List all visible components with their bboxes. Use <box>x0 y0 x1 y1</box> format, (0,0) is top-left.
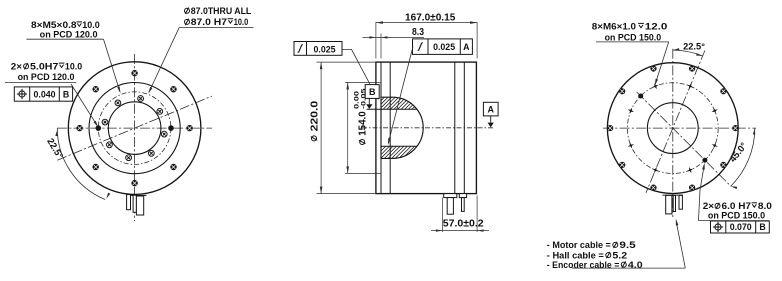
167 arrow left <box>376 21 383 24</box>
svg-text:on PCD 120.0: on PCD 120.0 <box>18 72 75 82</box>
8xM6 underline <box>596 41 669 43</box>
svg-text:on PCD 150.0: on PCD 150.0 <box>605 32 662 42</box>
2xdia5 note underline <box>5 81 76 83</box>
left view rim hole 8 <box>93 86 99 92</box>
svg-text:0.070: 0.070 <box>730 222 752 232</box>
left view cable collar line <box>131 194 147 196</box>
left view M5 tapped hole 1 <box>138 96 144 102</box>
dia87 leader <box>149 28 179 92</box>
8.3 ext line <box>380 34 382 59</box>
57 arrow right <box>477 229 484 231</box>
parallelism frame 0.025 (left) <box>294 42 342 56</box>
right view rim hole 1 <box>689 66 695 72</box>
parallelism leader right <box>388 47 413 144</box>
154 ext bottom <box>345 172 381 174</box>
svg-text:B: B <box>759 222 765 232</box>
2xdia6 leader <box>699 165 705 221</box>
left view encoder cable stub <box>127 195 131 210</box>
svg-text:87.0 H7: 87.0 H7 <box>191 17 227 27</box>
middle view body outline <box>376 62 477 194</box>
svg-text:154.0: 154.0 <box>358 111 369 136</box>
left view 22.5deg dimension arc <box>57 128 105 199</box>
left 22.5 arc arrow bottom <box>106 193 110 199</box>
svg-text:on PCD 120.0: on PCD 120.0 <box>40 29 98 39</box>
167 ext line right <box>476 22 478 59</box>
left view motor cable stub <box>136 196 143 215</box>
57 dim line <box>431 230 489 232</box>
left view M5 tapped hole 3 <box>161 131 167 137</box>
right view M6 hole mark 3 <box>712 142 718 148</box>
left view rim hole 4 <box>170 164 176 170</box>
right view M6 hole mark 8 <box>652 83 658 89</box>
left view note dia87.0 THRU ALL <box>185 8 190 14</box>
right view M6 hole mark 6 <box>628 142 634 148</box>
left view outer circle OD220 <box>68 62 201 195</box>
svg-text:0.025: 0.025 <box>433 42 455 52</box>
left view M5 tapped hole 7 <box>102 119 108 125</box>
middle view bore chord bottom line <box>381 145 417 147</box>
right view dowel hole SE <box>703 158 707 162</box>
parallelism leader left <box>342 49 378 99</box>
220 arrow top <box>320 62 323 69</box>
svg-text:A: A <box>487 104 494 114</box>
right view M6 hole mark 1 <box>687 83 693 89</box>
middle view horizontal centerline <box>362 127 495 129</box>
right view rim hole 4 <box>720 162 726 168</box>
svg-text:9.5: 9.5 <box>619 240 635 250</box>
154 dim line <box>347 82 349 173</box>
svg-text:5.0H7: 5.0H7 <box>30 61 58 71</box>
8.3 arrow left <box>369 36 376 38</box>
167 ext line left <box>375 22 377 59</box>
middle view hall cable stub <box>462 198 465 212</box>
left view note dia87.0 H7 depth 10 <box>185 19 190 25</box>
right view 45deg dimension <box>731 128 755 186</box>
right view cable collar line <box>663 194 684 196</box>
dia87 leader arrow <box>148 87 152 94</box>
right view rim hole 8 <box>607 125 613 131</box>
220 arrow bottom <box>320 187 323 194</box>
2xdia5 leader arrow <box>94 121 99 128</box>
right view M6 hole mark 2 <box>712 108 718 114</box>
middle view hall cable collar <box>459 194 466 198</box>
dia220 label <box>309 100 320 141</box>
2xdia6 underline <box>699 220 770 222</box>
220 ext bottom <box>317 193 376 195</box>
svg-text:10.0: 10.0 <box>65 61 82 71</box>
svg-text:22.5°: 22.5° <box>683 42 705 52</box>
svg-text:87.0THRU ALL: 87.0THRU ALL <box>191 6 252 16</box>
220 dim line <box>320 62 322 194</box>
right view outer circle <box>607 63 738 194</box>
left view boss circle dia154 <box>89 83 180 174</box>
57 ext left <box>441 198 443 233</box>
right view encoder cable stub <box>679 195 682 209</box>
middle view flange face line <box>380 62 382 194</box>
left view M5 tapped hole 4 <box>148 150 154 156</box>
svg-text:2×: 2× <box>11 61 22 71</box>
left view bore circle dia87 <box>108 102 161 155</box>
cable note underline <box>572 267 685 269</box>
middle view motor cable stub <box>447 198 453 215</box>
svg-text:B: B <box>369 87 376 97</box>
154 arrow top <box>346 82 349 89</box>
left view rim hole 3 <box>186 125 192 131</box>
right view dowel hole NW <box>639 94 643 98</box>
left view rim hole 2 <box>170 86 176 92</box>
left view M5 tapped hole 8 <box>115 100 121 106</box>
left view 22.5-deg diagonal centerline <box>57 96 212 160</box>
right view vertical centerline <box>672 49 674 217</box>
svg-text:5.2: 5.2 <box>612 250 627 260</box>
svg-text:8×M6×1.0: 8×M6×1.0 <box>592 22 636 32</box>
right view rim hole 7 <box>619 162 625 168</box>
right view M6 hole mark 5 <box>652 167 658 173</box>
datum B symbol <box>366 104 372 109</box>
right view rim hole 10 <box>650 66 656 72</box>
left view dowel hole right of 2x dia5 pair <box>169 126 174 131</box>
right view position tolerance frame 0.070 B <box>711 221 770 233</box>
right view rim hole 9 <box>619 88 625 94</box>
svg-text:12.0: 12.0 <box>645 22 668 32</box>
left view M5 tapped hole 5 <box>126 155 132 161</box>
left 22.5 arc arrow top <box>55 130 57 137</box>
57 arrow left <box>436 229 443 231</box>
left view PCD120 bolt circle <box>98 92 171 165</box>
8xM6 leader <box>655 42 669 84</box>
154 arrow bottom <box>346 166 349 173</box>
datum A symbol <box>488 123 494 128</box>
right view rim hole 2 <box>720 88 726 94</box>
8xM5 leader <box>104 39 120 91</box>
svg-text:on PCD 150.0: on PCD 150.0 <box>708 210 765 220</box>
cable note leader <box>676 223 685 269</box>
167 arrow right <box>470 21 477 24</box>
57 ext right <box>476 196 478 233</box>
right view hall cable stub <box>673 195 675 211</box>
right view 45deg dowel axis line <box>637 92 731 186</box>
left view rim hole 7 <box>76 125 82 131</box>
svg-text:A: A <box>463 42 470 52</box>
left view rim hole 6 <box>93 164 99 170</box>
parallelism frame 0.025 A (right) <box>413 39 473 55</box>
svg-text:0.00: 0.00 <box>354 90 361 109</box>
left view M5 tapped hole 6 <box>107 142 113 148</box>
left view rim hole 1 <box>131 70 137 76</box>
left view horizontal centerline <box>57 127 212 129</box>
right view 22.5deg dimension <box>673 50 703 56</box>
8.3 dim line <box>363 36 425 38</box>
middle view rear line 1 <box>454 62 456 194</box>
220 ext top <box>317 61 376 63</box>
middle view hatch bands <box>284 88 614 162</box>
middle view stator section outline <box>381 97 423 158</box>
8.3 arrow right <box>381 36 388 38</box>
middle view motor cable collar <box>444 194 457 198</box>
8xM5 note underline <box>27 38 104 40</box>
svg-text:10.0: 10.0 <box>234 17 248 27</box>
right view PCD150 bolt circle <box>627 83 718 174</box>
left view position tolerance frame 0.040 B <box>14 87 72 101</box>
middle view flange inner line <box>389 62 391 194</box>
left view hall cable stub <box>133 195 136 212</box>
154 ext top <box>345 81 381 83</box>
167 dim line <box>376 22 477 24</box>
right view horizontal centerline <box>603 127 756 129</box>
middle view rear line 2 <box>463 62 465 194</box>
right view rim hole 3 <box>732 125 738 131</box>
svg-text:220.0: 220.0 <box>309 100 320 131</box>
dia87 note underline <box>179 27 253 29</box>
right view motor cable stub <box>666 195 672 214</box>
right view M6 hole mark 7 <box>628 108 634 114</box>
svg-text:B: B <box>63 89 69 99</box>
left view rim hole 5 <box>131 180 137 186</box>
middle view bore chord top line <box>367 108 417 110</box>
svg-text:57.0±0.2: 57.0±0.2 <box>443 218 484 229</box>
svg-text:167.0±0.15: 167.0±0.15 <box>405 13 456 24</box>
left view dowel hole left of 2x dia5 pair <box>96 126 101 131</box>
right view rim hole 5 <box>689 185 695 191</box>
svg-text:0.040: 0.040 <box>33 89 55 99</box>
right view M6 hole mark 4 <box>687 167 693 173</box>
right view 22.5deg axis line <box>646 51 705 193</box>
svg-text:0.025: 0.025 <box>313 45 335 55</box>
svg-text:- Hall cable =: - Hall cable = <box>547 250 604 260</box>
svg-text:- Motor cable =: - Motor cable = <box>547 240 611 250</box>
dia154 label <box>354 88 369 145</box>
2xdia5 leader <box>71 84 98 126</box>
right view rim hole 6 <box>650 185 656 191</box>
8xM5 leader arrow <box>117 86 120 93</box>
left view vertical centerline <box>134 54 136 221</box>
svg-text:8.3: 8.3 <box>412 27 424 38</box>
right view bore circle <box>647 103 698 154</box>
left view M5 tapped hole 2 <box>157 109 163 115</box>
